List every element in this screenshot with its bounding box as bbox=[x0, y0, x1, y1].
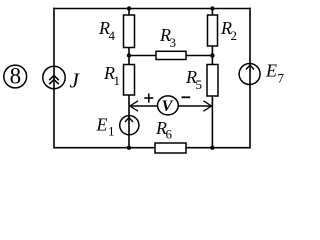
emf source E1 bbox=[120, 115, 139, 135]
plus sign bbox=[144, 94, 153, 103]
svg-text:5: 5 bbox=[196, 77, 203, 92]
resistor R3 bbox=[156, 51, 186, 59]
wire right bbox=[249, 9, 251, 148]
problem number badge 8 bbox=[4, 64, 27, 89]
node dot mid A bbox=[127, 53, 131, 57]
wire left bbox=[53, 9, 55, 148]
voltmeter V bbox=[158, 96, 179, 115]
svg-text:4: 4 bbox=[109, 28, 116, 43]
node dot top B bbox=[210, 6, 214, 10]
svg-text:1: 1 bbox=[114, 73, 121, 88]
node dot mid B bbox=[210, 53, 214, 57]
resistor R4 bbox=[124, 15, 135, 48]
svg-text:E: E bbox=[96, 115, 108, 135]
emf source E7 bbox=[239, 63, 260, 85]
voltmeter arrow right bbox=[203, 101, 211, 111]
node dot bottom B bbox=[210, 146, 214, 150]
node dot bottom A bbox=[127, 146, 131, 150]
wire branch A vertical bbox=[128, 9, 130, 148]
svg-text:1: 1 bbox=[108, 124, 115, 139]
svg-text:V: V bbox=[162, 98, 174, 115]
voltmeter arrow left bbox=[130, 101, 138, 111]
current source J bbox=[43, 66, 65, 89]
wire bottom bbox=[54, 147, 250, 149]
svg-text:8: 8 bbox=[10, 64, 22, 89]
node dot top A bbox=[127, 6, 131, 10]
wire top bbox=[54, 8, 250, 10]
wire branch B vertical bbox=[211, 9, 213, 148]
wire R3 branch bbox=[129, 55, 212, 57]
resistor R1 bbox=[124, 65, 135, 96]
svg-text:6: 6 bbox=[166, 127, 173, 142]
svg-text:3: 3 bbox=[170, 35, 177, 50]
svg-text:7: 7 bbox=[278, 71, 285, 86]
minus sign bbox=[182, 96, 191, 98]
resistor R5 bbox=[207, 65, 218, 97]
resistor R6 bbox=[155, 143, 186, 153]
svg-text:E: E bbox=[265, 61, 277, 81]
resistor R2 bbox=[208, 15, 218, 46]
svg-text:2: 2 bbox=[231, 28, 238, 43]
voltmeter branch wire bbox=[130, 105, 212, 107]
